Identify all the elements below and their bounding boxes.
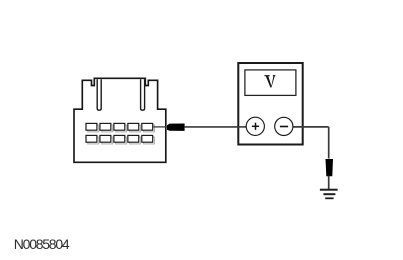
voltmeter body	[238, 63, 302, 145]
connector latch slot left	[97, 79, 101, 110]
voltmeter V label	[265, 75, 276, 87]
negative terminal circle	[275, 117, 293, 135]
wire inside meter to positive terminal	[237, 126, 250, 128]
plus sign	[252, 125, 259, 127]
voltmeter display window	[245, 70, 296, 96]
wire negative terminal to corner	[290, 126, 329, 128]
ground symbol	[320, 189, 338, 200]
wire probe to ground	[328, 176, 330, 189]
pin cavities row 1 (pins 1-5)	[86, 123, 153, 130]
figure number label N0085804	[14, 236, 69, 252]
positive terminal circle	[246, 117, 264, 135]
test probe at ground lead	[326, 159, 334, 176]
pin cavity shadows (gray ghost rects)	[88, 125, 155, 144]
pin cavities row 2 (pins 6-10)	[86, 135, 153, 142]
test probe at connector	[167, 124, 185, 131]
wire probe to voltmeter positive lead	[185, 126, 248, 128]
wire down from corner	[328, 127, 330, 159]
wire pin5 to connector wall	[153, 126, 167, 128]
minus sign	[280, 126, 288, 128]
connector latch slot right	[141, 79, 145, 110]
connector C1 body outline	[74, 78, 166, 162]
